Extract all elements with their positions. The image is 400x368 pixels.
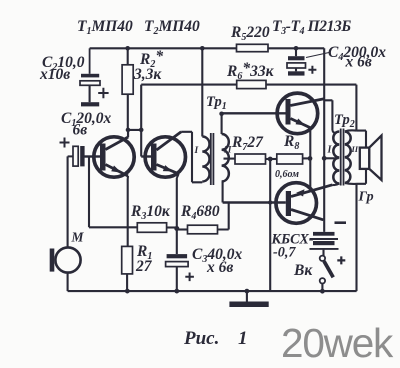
wire Tr2 primary bottom link <box>332 184 339 186</box>
node R7-R8 <box>268 157 273 162</box>
wire T1 collector node to R6 (feedback rail) <box>141 85 356 131</box>
svg-text:М: М <box>71 230 85 245</box>
transistor T1 <box>84 130 134 177</box>
wire Tr2 secondary bottom to speaker <box>345 169 366 291</box>
svg-text:27: 27 <box>135 258 153 275</box>
resistor R2 <box>122 48 133 130</box>
battery KBS <box>310 223 347 265</box>
svg-text:х 6в: х 6в <box>206 259 233 276</box>
capacitor C2 <box>80 48 109 106</box>
wire R1 bottom <box>126 274 128 291</box>
transformer Tr1 <box>202 114 229 203</box>
svg-text:0,6ом: 0,6ом <box>275 169 299 180</box>
node switch-rail <box>320 289 325 294</box>
resistor R8 <box>277 154 303 164</box>
svg-text:R5220: R5220 <box>230 24 270 43</box>
switch Vk <box>320 256 334 292</box>
svg-text:R310к: R310к <box>130 203 171 222</box>
wire T4 base <box>223 201 286 203</box>
node rail-Tr1 <box>200 46 205 51</box>
svg-text:R727: R727 <box>231 134 264 153</box>
svg-text:Т2МП40: Т2МП40 <box>144 18 200 37</box>
node rail-R2 <box>125 46 130 51</box>
wire right supply bus <box>323 48 325 232</box>
node CT <box>322 156 327 161</box>
wire Tr1 primary riser <box>201 48 203 136</box>
wire collector jog to Tr2 primary <box>324 100 336 132</box>
wire T3 base <box>222 112 286 114</box>
node gnd-rail <box>245 289 250 294</box>
svg-text:R4680: R4680 <box>180 203 220 222</box>
resistor R6 <box>237 80 266 88</box>
wire R4 left <box>177 228 188 230</box>
svg-text:II: II <box>223 146 232 156</box>
node C3-rail <box>174 289 179 294</box>
wire top rail <box>90 47 325 49</box>
node T3 base junction <box>219 112 224 117</box>
node T1C-R2 <box>126 128 131 133</box>
node R1-rail <box>125 289 130 294</box>
capacitor C1 <box>60 138 85 167</box>
ground <box>229 291 268 307</box>
svg-text:Гр: Гр <box>358 190 374 205</box>
wire T2 collector loop to Tr1 primary bottom <box>181 132 202 183</box>
svg-text:Вк: Вк <box>293 262 313 279</box>
svg-text:I: I <box>194 146 199 156</box>
capacitor C4 <box>287 48 329 75</box>
svg-text:Рис.: Рис. <box>183 328 219 349</box>
svg-text:20wek: 20wek <box>281 320 394 366</box>
wire bottom rail <box>68 290 357 292</box>
svg-text:-0,7: -0,7 <box>273 245 296 261</box>
resistor R3 <box>137 223 166 233</box>
svg-text:6в: 6в <box>73 122 88 139</box>
svg-text:1: 1 <box>238 328 248 349</box>
wire Tr2 secondary top to speaker <box>345 130 366 147</box>
wire R8 right <box>303 157 311 159</box>
node R8-emitters <box>308 156 313 161</box>
wire T3 emitter drop <box>309 128 311 191</box>
resistor R5 <box>237 44 269 51</box>
svg-text:R6*33к: R6*33к <box>226 60 275 82</box>
svg-text:3,3к: 3,3к <box>133 66 162 83</box>
wire R7 tap <box>224 158 236 160</box>
wire base bias drop to R3 <box>89 157 137 228</box>
wire R4 right riser to T4 base <box>218 203 229 230</box>
wire R7-R8 <box>266 158 277 160</box>
resistor R4 <box>188 225 218 234</box>
wire center tap Tr2 <box>324 157 338 159</box>
wire T1 collector riser <box>128 85 141 157</box>
wire T4 collector to battery <box>323 219 324 221</box>
node drop base T4 <box>268 200 272 204</box>
svg-text:х10в: х10в <box>39 66 70 83</box>
wire R7R8 node drop <box>269 159 271 291</box>
wire R3 to node <box>167 226 177 228</box>
transistor T4 <box>276 183 332 224</box>
resistor R1 <box>122 246 133 274</box>
transformer Tr2 <box>333 129 350 186</box>
node rail-C4 <box>294 46 299 51</box>
svg-text:х 6в: х 6в <box>345 54 372 71</box>
microphone M <box>50 156 81 291</box>
capacitor C3 <box>166 254 194 291</box>
resistor R7 <box>235 154 266 164</box>
speaker Gr <box>360 136 382 181</box>
wire T1 emitter drop to R1 <box>127 176 129 246</box>
svg-text:Т1МП40: Т1МП40 <box>77 18 133 37</box>
transistor T3 <box>277 93 324 134</box>
node T2 base riser <box>139 128 144 133</box>
wire T2 emitter drop <box>177 174 179 254</box>
node R3-R4-C3 <box>174 226 179 231</box>
svg-text:II: II <box>351 144 359 154</box>
transistor T2 <box>141 132 185 177</box>
